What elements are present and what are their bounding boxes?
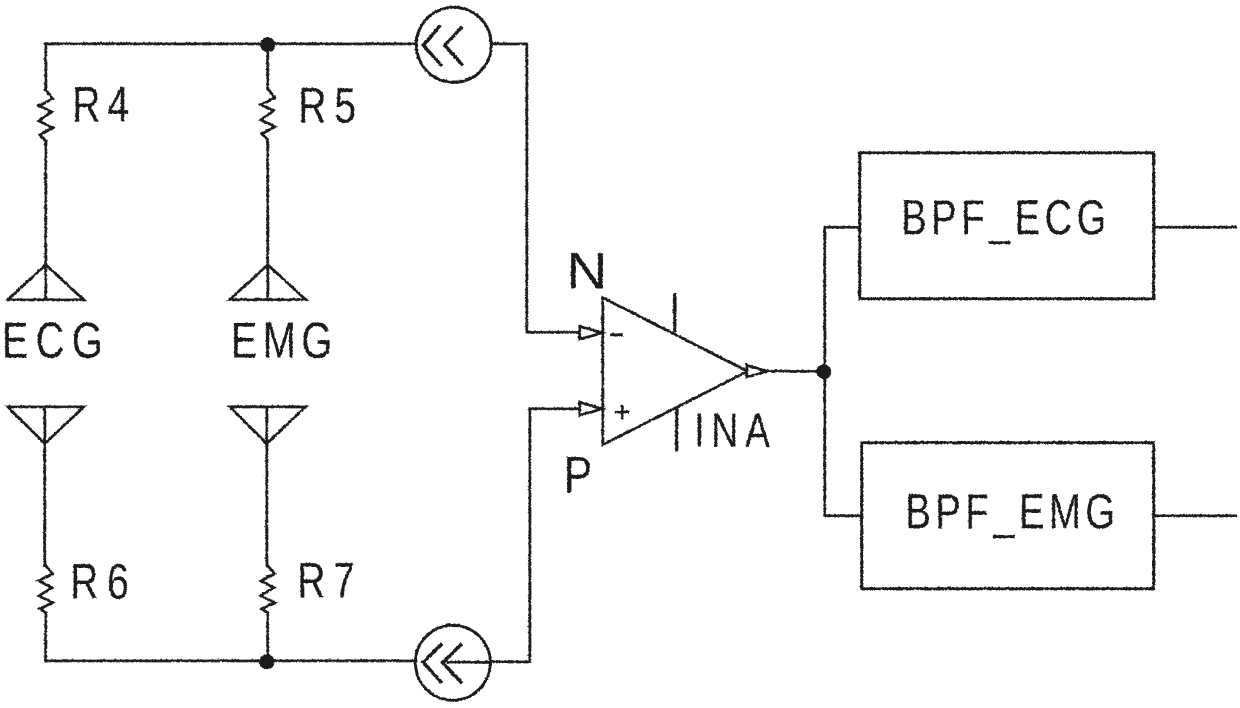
electrode ECG (up triangle)	[7, 264, 83, 299]
wire op-amp output to node	[766, 369, 824, 372]
label N	[566, 242, 607, 299]
chevron 2 of CS1	[444, 27, 461, 64]
block BPF_EMG	[861, 442, 1153, 588]
wire R7 to bottom junction	[266, 612, 269, 660]
label INA	[694, 404, 776, 458]
wire stub to BPF_ECG	[824, 225, 859, 228]
svg-text:BPF_ECG: BPF_ECG	[901, 190, 1111, 245]
label P	[563, 446, 591, 504]
block BPF_ECG	[859, 152, 1153, 298]
wire output bus vertical	[823, 227, 826, 516]
input arrow N	[579, 326, 601, 339]
resistor R4	[38, 89, 52, 140]
node bottom junction	[259, 654, 274, 669]
current source CS1 (top)	[416, 7, 491, 82]
wire bottom rail	[45, 659, 415, 662]
resistor R7	[260, 565, 274, 612]
svg-text:N: N	[566, 242, 607, 299]
label BPF_ECG	[901, 190, 1111, 245]
label ECG	[1, 311, 109, 368]
label BPF_EMG	[905, 484, 1119, 539]
chevron 2 of CS2	[442, 644, 460, 681]
svg-text:P: P	[563, 446, 591, 504]
resistor R5	[260, 88, 274, 139]
wire left column top	[44, 43, 47, 89]
label R5	[298, 76, 363, 133]
electrode ECG return (down triangle)	[7, 406, 83, 443]
svg-text:EMG: EMG	[230, 311, 337, 368]
svg-text:R7: R7	[297, 551, 362, 608]
input arrow P	[579, 402, 601, 415]
wire down-triangle to R6	[43, 443, 46, 565]
wire R5 to EMG electrode	[266, 139, 269, 264]
svg-text:R5: R5	[298, 76, 363, 133]
wire R4 to ECG electrode	[44, 140, 47, 264]
svg-text:R6: R6	[70, 552, 137, 609]
chevron 1 of CS2	[423, 644, 441, 681]
wire R6 to bottom rail	[44, 612, 47, 660]
chevron 1 of CS1	[423, 26, 441, 64]
svg-text:ECG: ECG	[1, 311, 109, 368]
output arrow of op-amp	[746, 365, 766, 377]
label R6	[70, 552, 137, 609]
op-amp plus sign	[616, 405, 628, 417]
wire down-triangle to R7	[265, 443, 268, 565]
label R4	[72, 75, 136, 132]
wire second column top	[266, 44, 269, 88]
op-amp top power pin	[672, 294, 675, 330]
label R7	[297, 551, 362, 608]
svg-text:BPF_EMG: BPF_EMG	[905, 484, 1119, 539]
wire through CS2	[447, 660, 489, 663]
svg-text:INA: INA	[694, 404, 776, 458]
wire CS2 to P riser	[490, 408, 579, 661]
electrode EMG (up triangle)	[229, 264, 305, 299]
wire BPF_EMG output	[1153, 514, 1235, 517]
svg-text:R4: R4	[72, 75, 136, 132]
wire top rail	[45, 42, 415, 45]
wire BPF_ECG output	[1153, 225, 1235, 228]
wire stub to BPF_EMG	[824, 514, 861, 517]
op-amp U1 triangle	[602, 297, 747, 444]
electrode EMG return (down triangle)	[229, 406, 305, 443]
node output junction	[816, 364, 831, 379]
op-amp minus sign	[611, 333, 621, 336]
wire CS1 to N riser	[491, 43, 579, 332]
resistor R6	[38, 565, 52, 612]
op-amp bottom power pin	[674, 407, 677, 449]
current source CS2 (bottom)	[415, 625, 490, 700]
label EMG	[230, 311, 337, 368]
node top junction	[260, 37, 275, 52]
